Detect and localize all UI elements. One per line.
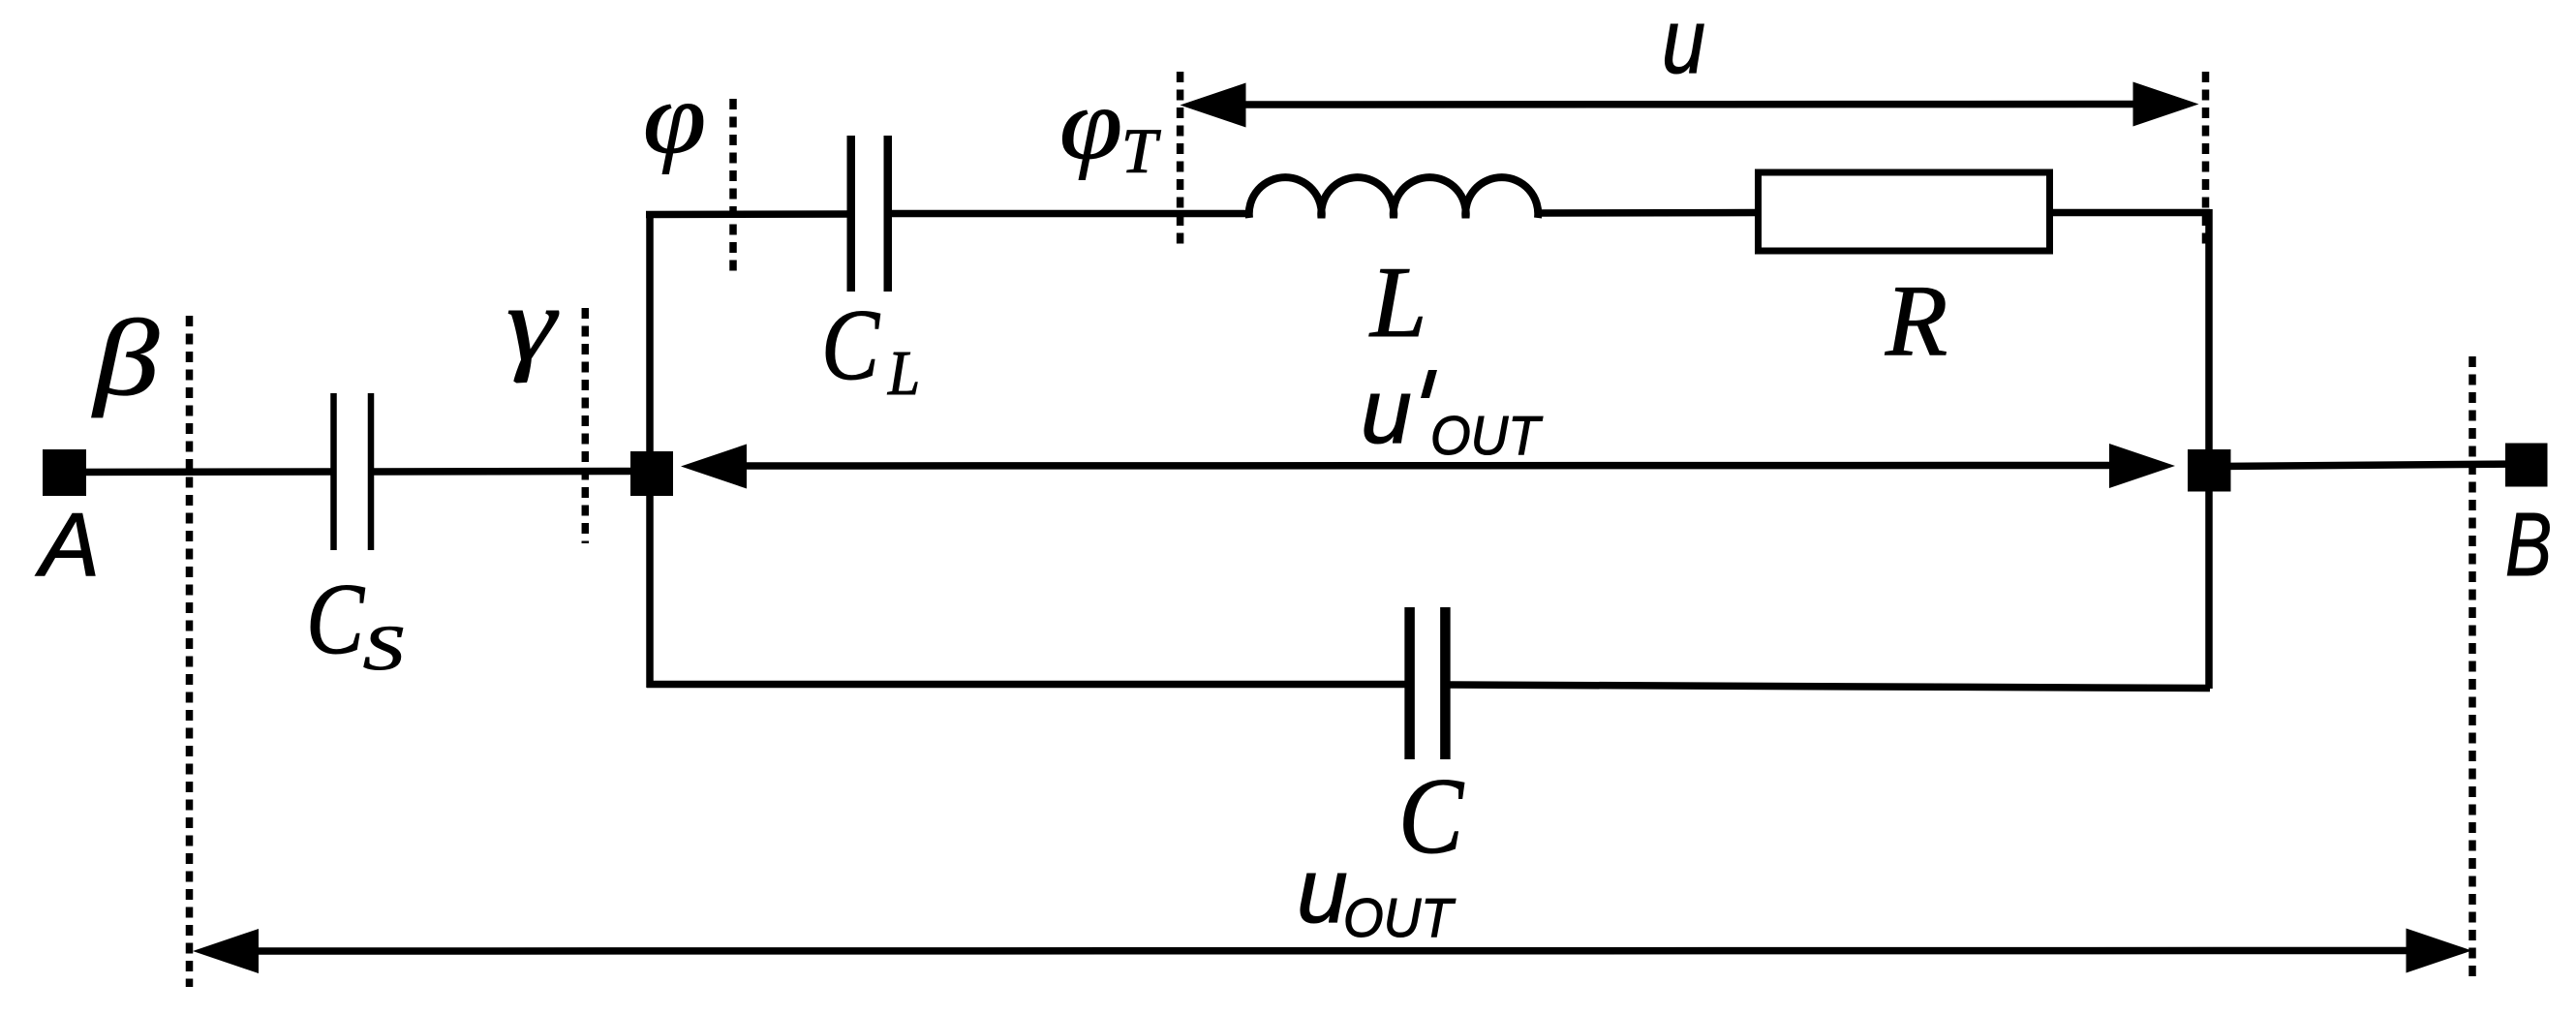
svg-text:R: R	[1885, 263, 1947, 377]
svg-text:S: S	[363, 613, 404, 684]
svg-text:T: T	[1121, 116, 1161, 187]
svg-text:C: C	[821, 288, 881, 401]
svg-text:OUT: OUT	[1343, 887, 1457, 949]
svg-text:β: β	[92, 298, 160, 418]
svg-text:γ: γ	[506, 265, 559, 384]
svg-text:OUT: OUT	[1430, 405, 1544, 467]
svg-text:C: C	[1398, 756, 1464, 877]
svg-text:B: B	[2505, 494, 2552, 595]
svg-text:u: u	[1662, 0, 1705, 93]
svg-text:u: u	[1297, 840, 1348, 942]
svg-text:φ: φ	[1059, 67, 1122, 180]
svg-text:u: u	[1361, 360, 1412, 463]
svg-text:L: L	[887, 338, 920, 409]
svg-text:φ: φ	[643, 61, 706, 174]
svg-text:L: L	[1368, 245, 1426, 358]
svg-text:A: A	[35, 494, 100, 595]
svg-text:C: C	[306, 562, 366, 675]
